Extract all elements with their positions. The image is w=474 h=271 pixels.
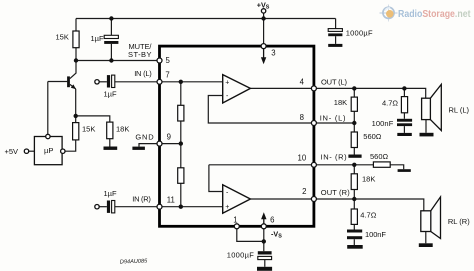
junction dot +Vs rail bbox=[261, 16, 265, 20]
wire pin 10 external bbox=[316, 164, 373, 166]
junction dot collector node bbox=[74, 58, 78, 62]
arrow -Vs out of pin 6 bbox=[261, 212, 266, 224]
wire 100nF C7 to ground bbox=[403, 126, 405, 133]
wire pin 7 to op-amp U1 + input bbox=[162, 81, 223, 83]
junction dot pin7 internal bbox=[179, 80, 183, 84]
op-amp U1b triangle bbox=[223, 185, 251, 213]
junction dot pin8 node bbox=[352, 121, 356, 125]
wire transistor Q1 emitter to node bbox=[75, 89, 77, 116]
svg-text:RL (L): RL (L) bbox=[449, 106, 470, 115]
wire top +Vs supply rail bbox=[76, 18, 336, 20]
wire 18K R4 top lead bbox=[353, 88, 355, 97]
svg-text:18K: 18K bbox=[116, 125, 129, 134]
op-amp U1a triangle bbox=[223, 75, 251, 103]
svg-text:7: 7 bbox=[165, 71, 169, 80]
terminal IN (R) bbox=[95, 205, 99, 209]
wire IN (L) terminal to C2 bbox=[99, 81, 107, 83]
junction dot C1 bottom bbox=[109, 58, 113, 62]
svg-text:OUT (L): OUT (L) bbox=[321, 77, 348, 86]
transistor Q1 base bar bbox=[67, 76, 70, 87]
pin 11 bbox=[157, 204, 162, 209]
svg-text:OUT (R): OUT (R) bbox=[321, 188, 350, 197]
terminal uP top bbox=[46, 134, 50, 138]
wire pin 8 to node bbox=[316, 122, 354, 124]
wire op-amp U2 output to pin 2 bbox=[250, 198, 314, 200]
wire pin 11 to op-amp U2 + input bbox=[162, 206, 223, 208]
wire emitter node to 18K R3 bbox=[76, 116, 110, 122]
svg-text:100nF: 100nF bbox=[372, 119, 394, 128]
svg-text:RadioStorage.net: RadioStorage.net bbox=[398, 9, 471, 20]
wire +Vs terminal column bbox=[263, 13, 265, 45]
wire 18K R4 to pin 8 node bbox=[353, 111, 355, 123]
wire 1000uF C4 bottom lead bbox=[335, 36, 337, 44]
wire GND stub from pin 9 bbox=[139, 144, 158, 147]
svg-text:10: 10 bbox=[298, 154, 307, 163]
ground under speaker RL(L) bbox=[420, 133, 434, 137]
svg-text:4.7Ω: 4.7Ω bbox=[382, 99, 398, 108]
resistor internal Ri2 bbox=[178, 168, 184, 184]
svg-text:100nF: 100nF bbox=[365, 230, 386, 239]
wire 560ohm R5 leads bbox=[353, 123, 355, 155]
svg-text:11: 11 bbox=[167, 196, 175, 205]
resistor internal Ri1 bbox=[178, 105, 184, 121]
watermark RadioStorage.net logo bbox=[380, 5, 472, 22]
ground GND pin 9 bbox=[132, 147, 145, 150]
ground under C6 bbox=[347, 245, 363, 249]
svg-text:D94AU085: D94AU085 bbox=[120, 258, 148, 265]
svg-text:+5V: +5V bbox=[5, 147, 19, 156]
ground under R3 bbox=[104, 147, 118, 150]
svg-text:8: 8 bbox=[300, 113, 304, 122]
svg-text:RL (R): RL (R) bbox=[448, 217, 470, 226]
wire 18K R3 to ground bbox=[109, 139, 111, 147]
svg-text:+: + bbox=[225, 204, 229, 211]
wire base column down to uP bbox=[47, 82, 49, 135]
svg-text:9: 9 bbox=[167, 132, 171, 141]
capacitor C4 1000uF plates bbox=[328, 29, 342, 32]
wire C5 to ground bbox=[264, 260, 266, 267]
svg-text:1µF: 1µF bbox=[104, 89, 117, 98]
wire pin 4 OUT (L) rail bbox=[316, 88, 426, 98]
svg-text:1000µF: 1000µF bbox=[227, 250, 255, 259]
svg-text:4: 4 bbox=[300, 78, 305, 87]
capacitor C5 1000uF plates bbox=[258, 251, 272, 254]
ground under C5 bbox=[257, 267, 272, 271]
wire pin 2 OUT (R) rail bbox=[316, 199, 424, 211]
wire pin 9 internal bbox=[162, 143, 181, 145]
capacitor C3 1uF plates bbox=[107, 201, 110, 213]
svg-text:15K: 15K bbox=[82, 125, 95, 134]
resistor 18K R4 bbox=[351, 97, 357, 111]
pin 1 bbox=[234, 224, 239, 229]
pin 3 bbox=[261, 44, 266, 49]
svg-text:+: + bbox=[225, 80, 229, 87]
wire +5V to uP bbox=[29, 150, 35, 152]
ground under speaker RL(R) bbox=[419, 243, 433, 247]
capacitor C6 100nF plates bbox=[347, 230, 362, 233]
capacitor C7 100nF plates bbox=[397, 119, 412, 122]
capacitor C2 1uF plates bbox=[107, 75, 110, 87]
transistor Q1 emitter arrow bbox=[70, 84, 76, 89]
wire 4.7ohm R9 leads bbox=[403, 88, 405, 118]
ground under R5 bbox=[348, 155, 361, 158]
speaker RL(L) bbox=[422, 84, 442, 130]
ground under R6 bbox=[398, 169, 411, 172]
resistor 560ohm R5 bbox=[351, 132, 357, 148]
resistor 4.7ohm R8 bbox=[351, 209, 357, 224]
svg-text:µP: µP bbox=[44, 146, 53, 155]
wire 18K R7 leads bbox=[353, 165, 355, 199]
junction dot pin11 internal bbox=[179, 205, 183, 209]
wire pin 1 loop bbox=[237, 229, 264, 242]
svg-text:1µF: 1µF bbox=[91, 34, 104, 43]
wire transistor Q1 collector bbox=[70, 61, 76, 79]
junction dot OUT L / 18K bbox=[352, 86, 356, 90]
resistor 18K R3 bbox=[107, 122, 113, 139]
svg-text:1: 1 bbox=[233, 215, 237, 224]
wire 15K R2 to uP pin bbox=[65, 140, 76, 151]
pin 7 bbox=[157, 79, 162, 84]
svg-text:18K: 18K bbox=[334, 98, 347, 107]
resistor 18K R7 bbox=[351, 174, 357, 190]
junction dot emitter node bbox=[74, 114, 78, 118]
terminal +Vs bbox=[261, 9, 265, 13]
speaker RL(R) bbox=[421, 197, 441, 239]
svg-text:ST-BY: ST-BY bbox=[128, 50, 152, 59]
svg-text:5: 5 bbox=[166, 56, 171, 65]
svg-text:IN- (L): IN- (L) bbox=[320, 113, 346, 122]
svg-text:18K: 18K bbox=[362, 174, 375, 183]
wire internal resistor chain mid bbox=[180, 121, 182, 168]
junction dot pin10 node bbox=[352, 163, 356, 167]
svg-text:560Ω: 560Ω bbox=[363, 132, 382, 141]
wire 4.7ohm R8 leads bbox=[353, 199, 355, 230]
wire transistor Q1 base lead bbox=[48, 81, 68, 83]
pin 8 bbox=[311, 121, 316, 126]
wire capacitor C1 top lead bbox=[110, 19, 112, 36]
resistor 15K R2 bbox=[73, 123, 79, 140]
microcontroller uP box bbox=[34, 137, 62, 165]
svg-text:IN (R): IN (R) bbox=[132, 195, 151, 204]
svg-text:1000µF: 1000µF bbox=[346, 29, 373, 38]
resistor 560ohm R6 horizontal bbox=[373, 162, 390, 167]
pin 9 bbox=[157, 141, 162, 146]
ground under C7 bbox=[397, 133, 412, 136]
junction dot OUT L / 4.7ohm bbox=[402, 86, 406, 90]
svg-text:IN (L): IN (L) bbox=[134, 69, 152, 78]
capacitor C1 1uF plates bbox=[104, 35, 118, 38]
wire internal resistor chain top bbox=[180, 82, 182, 106]
wire emitter node to 15K R2 bbox=[75, 116, 77, 123]
terminal IN (L) bbox=[95, 80, 99, 84]
junction dot pin2 node bbox=[352, 197, 356, 201]
wire 560ohm R6 right lead to ground bbox=[390, 165, 404, 169]
pin 10 bbox=[311, 162, 316, 167]
IC U1 body bbox=[160, 46, 314, 226]
pin 4 bbox=[311, 86, 316, 91]
resistor 15K R1 bbox=[73, 31, 79, 48]
svg-text:2: 2 bbox=[302, 187, 306, 196]
terminal uP right bbox=[61, 149, 65, 153]
wire op-amp U1 feedback loop bbox=[208, 96, 312, 124]
svg-text:IN- (R): IN- (R) bbox=[321, 153, 348, 162]
svg-text:15K: 15K bbox=[56, 33, 69, 42]
junction dot -Vs below bbox=[262, 239, 266, 243]
wire C3 to pin 11 bbox=[115, 206, 158, 208]
svg-text:6: 6 bbox=[270, 215, 274, 224]
wire 1000uF C4 top lead bbox=[335, 19, 337, 29]
svg-text:3: 3 bbox=[271, 49, 275, 58]
arrow +Vs into pin 3 bbox=[261, 49, 266, 65]
junction dot C1 top bbox=[109, 16, 113, 20]
wire 15K R1 bottom lead bbox=[75, 48, 77, 61]
svg-text:4.7Ω: 4.7Ω bbox=[360, 211, 376, 220]
wire internal resistor chain bottom bbox=[180, 183, 182, 206]
wire pin 10 internal bbox=[209, 164, 312, 166]
pin 2 bbox=[311, 197, 316, 202]
wire capacitor C1 bottom lead bbox=[110, 44, 112, 61]
pin 6 bbox=[261, 224, 266, 229]
wire C2 to pin 7 bbox=[115, 81, 158, 83]
svg-text:1µF: 1µF bbox=[104, 189, 117, 198]
wire op-amp U2 feedback loop bbox=[209, 165, 223, 192]
wire speaker RL(R) to ground bbox=[425, 232, 427, 244]
resistor 4.7ohm R9 bbox=[401, 97, 407, 113]
wire mute rail to pin 5 bbox=[76, 60, 158, 62]
wire speaker RL(L) to ground bbox=[425, 120, 427, 133]
pin 5 bbox=[157, 58, 162, 63]
terminal +5V bbox=[24, 149, 28, 153]
wire op-amp U1 output to pin 4 bbox=[250, 87, 314, 89]
ground under C4 bbox=[328, 44, 342, 47]
svg-text:GND: GND bbox=[135, 132, 154, 141]
svg-text:560Ω: 560Ω bbox=[370, 152, 389, 161]
wire pin 6 down to C5 bbox=[263, 229, 265, 252]
wire 15K R1 top lead bbox=[75, 19, 77, 32]
junction dot pin9 internal bbox=[179, 141, 183, 145]
wire 100nF C6 to ground bbox=[353, 239, 355, 245]
wire IN (R) terminal to C3 bbox=[99, 206, 107, 208]
